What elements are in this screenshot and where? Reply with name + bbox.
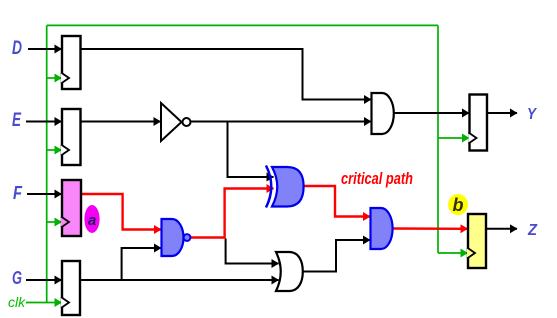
svg-text:D: D	[12, 38, 22, 59]
wire critical red NAND output to XOR bottom input	[190, 189, 273, 238]
wire clk top horizontal	[47, 24, 438, 26]
wire FF5 output Y	[487, 112, 517, 114]
flip-flop FF3 F highlighted	[61, 180, 81, 236]
wire clk branch to FF3	[47, 221, 62, 223]
svg-text:F: F	[13, 183, 23, 203]
wire critical red XOR output to AND2 top input	[304, 186, 371, 217]
svg-text:Z: Z	[527, 222, 538, 239]
or gate U4	[276, 252, 303, 291]
wire branch NAND output down to OR top input	[226, 239, 279, 264]
wire inverter output to AND1 (bottom)	[191, 121, 372, 123]
node b marker ellipse	[448, 194, 468, 215]
and gate U6 AND2 blue	[371, 208, 393, 249]
wire clk branch to FF2	[47, 149, 62, 151]
wire F input	[27, 193, 62, 195]
flip-flop FF4 G	[61, 261, 80, 315]
node a marker ellipse	[84, 205, 99, 233]
flip-flop FF6 Z highlighted	[467, 214, 486, 268]
wire branch G output up to NAND bottom input	[122, 248, 161, 280]
wire AND1 output to FF5	[394, 112, 469, 114]
wire G input	[26, 279, 62, 281]
wire clk vertical trunk	[46, 25, 48, 302]
wire clk right vertical	[437, 25, 439, 253]
flip-flop FF5 Y	[469, 95, 488, 151]
wire clk branch to FF6 Z	[438, 252, 468, 254]
svg-text:clk: clk	[8, 294, 26, 310]
wire FF1 output to AND1 (top)	[81, 49, 372, 100]
svg-text:G: G	[12, 268, 22, 288]
wire clk branch to FF5 Y	[438, 137, 469, 139]
wire FF2 output to inverter	[81, 121, 161, 123]
wire E input	[26, 121, 62, 123]
wire FF4 output to OR bottom input	[80, 279, 279, 281]
wire critical red FF3 output to NAND top input	[81, 194, 161, 230]
and gate U5 AND1 white	[372, 93, 394, 134]
wire OR output to AND2 bottom input	[304, 240, 371, 272]
wire critical red AND2 output to FF6	[393, 227, 468, 230]
wire D input	[28, 48, 62, 50]
svg-text:Y: Y	[527, 106, 537, 123]
flip-flop FF1 D	[61, 36, 81, 89]
svg-text:critical path: critical path	[341, 169, 413, 188]
flip-flop FF2 E	[61, 109, 81, 165]
wire branch inverter output down to XOR top input	[228, 122, 274, 178]
wire FF6 output Z	[486, 228, 517, 230]
wire clk input from label	[26, 302, 62, 304]
svg-text:a: a	[88, 212, 96, 229]
inverter U1	[161, 103, 191, 141]
wire clk branch to FF1	[47, 77, 62, 79]
xor gate U3	[266, 166, 304, 208]
svg-text:b: b	[453, 195, 464, 215]
svg-text:E: E	[12, 110, 22, 131]
nand gate U2	[162, 219, 191, 256]
